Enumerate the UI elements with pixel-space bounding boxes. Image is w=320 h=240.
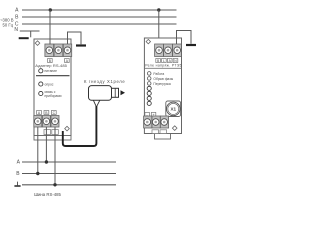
svg-text:питание: питание bbox=[45, 69, 58, 73]
relay bottom terminal 1 screw bbox=[144, 119, 151, 126]
adapter U1 body bbox=[34, 39, 71, 136]
adapter top terminal block 3 bbox=[63, 44, 71, 57]
relay pin label box plus bbox=[151, 112, 156, 116]
relay top terminal 3 screw bbox=[174, 47, 181, 54]
relay U2 body bbox=[144, 38, 181, 134]
relay bottom terminal block 1 bbox=[144, 116, 152, 128]
ground symbol bus shield bbox=[17, 182, 19, 186]
plug arrow bbox=[121, 90, 126, 95]
svg-text:Обрыв фазы: Обрыв фазы bbox=[153, 77, 173, 81]
relay pin label box 2 bbox=[162, 59, 167, 63]
node junction dot on A (left) bbox=[49, 8, 52, 11]
svg-text:Шина RS-485: Шина RS-485 bbox=[34, 192, 61, 197]
adapter bottom terminal block 2 bbox=[42, 116, 50, 128]
wire adapter PE step bbox=[68, 32, 82, 44]
relay pin label box 3 bbox=[167, 59, 172, 63]
svg-text:Х1: Х1 bbox=[170, 107, 176, 112]
node junction dot bus shield bbox=[53, 183, 56, 186]
adapter pin label box C bbox=[51, 111, 56, 115]
wire N to ground bbox=[30, 31, 32, 37]
wire relay PE step bbox=[177, 31, 192, 45]
bus line B bbox=[22, 173, 116, 175]
adapter bottom terminal 1 screw bbox=[35, 118, 42, 125]
svg-text:Работа: Работа bbox=[153, 72, 164, 76]
relay LED 6 bbox=[147, 96, 151, 100]
adapter bottom terminal block 1 bbox=[34, 116, 42, 128]
adapter bottom terminal 3 screw bbox=[52, 118, 59, 125]
adapter screw top-left bbox=[35, 41, 40, 46]
relay LED phase fail bbox=[147, 77, 151, 81]
relay top terminal block 1 bbox=[155, 44, 164, 57]
relay LED 4 bbox=[147, 86, 151, 90]
svg-text:L: L bbox=[163, 59, 165, 63]
wire adapter to bus A bbox=[37, 127, 39, 174]
relay U2 din clip bbox=[155, 134, 171, 140]
adapter top terminal 2 screw bbox=[55, 47, 62, 54]
wire neutral N bbox=[20, 30, 40, 32]
wire adapter to bus B bbox=[45, 127, 47, 162]
adapter LED power bbox=[39, 69, 43, 73]
relay top terminal 1 screw bbox=[156, 47, 163, 54]
adapter top terminal 3 screw bbox=[64, 47, 71, 54]
node junction dot on A (right) bbox=[157, 8, 160, 11]
ground neutral bar bbox=[19, 37, 29, 39]
relay LED overload bbox=[147, 82, 151, 86]
bus line A bbox=[22, 161, 116, 163]
wire phase A bbox=[22, 9, 177, 11]
ground PE right bar bbox=[186, 44, 196, 46]
relay LED 7 bbox=[147, 101, 151, 105]
adapter U1 bottom flange bbox=[34, 136, 71, 141]
svg-text:50 Гц: 50 Гц bbox=[3, 22, 14, 27]
wire phase B bbox=[22, 16, 177, 18]
ground PE left bar bbox=[76, 44, 86, 46]
adapter LED link bbox=[39, 91, 43, 95]
relay bottom terminal block 2 bbox=[152, 116, 160, 128]
svg-text:Перегрузка: Перегрузка bbox=[153, 82, 171, 86]
node junction dot bus A bbox=[45, 160, 48, 163]
relay screw bottom-right bbox=[172, 126, 177, 131]
wire adapter to bus shield bbox=[54, 127, 56, 185]
relay socket X1 ring bbox=[167, 102, 181, 116]
relay pin label box 1 bbox=[156, 59, 161, 63]
relay LED 5 bbox=[147, 91, 151, 95]
relay bottom connector box 1 bbox=[152, 130, 159, 134]
wire phase C bbox=[22, 23, 177, 25]
relay LED work bbox=[147, 72, 151, 76]
adapter pin label box N bbox=[65, 59, 70, 63]
relay pin label box minus bbox=[145, 112, 150, 116]
node junction dot bus B bbox=[36, 172, 39, 175]
wire A to relay bbox=[158, 10, 160, 44]
adapter bottom connector box 1 bbox=[44, 130, 51, 135]
adapter top terminal block 2 bbox=[54, 44, 63, 57]
cable plug to adapter bbox=[63, 106, 97, 146]
relay bottom terminal block 3 bbox=[160, 116, 168, 128]
adapter LED poll bbox=[39, 82, 43, 86]
relay separator line bbox=[144, 67, 181, 69]
relay socket X1 box bbox=[166, 101, 181, 117]
adapter bottom terminal 2 screw bbox=[43, 118, 50, 125]
plug P1 tip bbox=[112, 88, 119, 97]
adapter bottom terminal block 3 bbox=[51, 116, 59, 128]
adapter separator line bbox=[36, 75, 70, 77]
adapter bottom connector box 2 bbox=[52, 130, 59, 135]
bus line shield bbox=[22, 184, 116, 186]
relay top terminal block 2 bbox=[164, 44, 173, 57]
relay top terminal block 3 bbox=[173, 44, 182, 57]
plug P1 body bbox=[89, 86, 112, 101]
relay bottom connector box 2 bbox=[160, 130, 167, 134]
svg-text:приборами: приборами bbox=[45, 94, 62, 98]
svg-text:Адаптер RS-485: Адаптер RS-485 bbox=[35, 63, 67, 68]
plug cable funnel bbox=[93, 100, 99, 106]
relay pin label box 4 bbox=[173, 59, 178, 63]
relay screw top-left bbox=[146, 39, 150, 43]
wire A to adapter bbox=[49, 10, 51, 45]
svg-text:опрос: опрос bbox=[45, 82, 54, 86]
adapter top terminal block 1 bbox=[45, 44, 54, 57]
adapter pin label box B bbox=[44, 111, 49, 115]
relay top terminal 2 screw bbox=[165, 47, 172, 54]
relay bottom terminal 2 screw bbox=[152, 119, 159, 126]
svg-text:Реле напряж. РТЭ5: Реле напряж. РТЭ5 bbox=[145, 64, 182, 68]
svg-text:N: N bbox=[14, 27, 18, 33]
adapter pin label box L bbox=[48, 59, 53, 63]
svg-text:К гнезду Х1реле: К гнезду Х1реле bbox=[84, 79, 125, 84]
adapter top terminal 1 screw bbox=[46, 47, 53, 54]
adapter pin label box A bbox=[37, 111, 42, 115]
relay bottom terminal 3 screw bbox=[161, 119, 168, 126]
adapter screw bottom-right bbox=[65, 126, 70, 131]
